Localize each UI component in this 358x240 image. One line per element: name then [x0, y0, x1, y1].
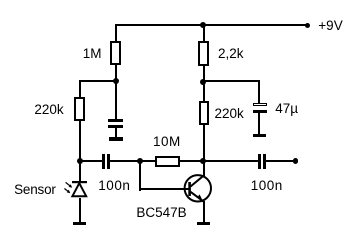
wire: 220k left bottom lead: [79, 121, 81, 161]
collector diagonal: [191, 175, 205, 186]
resistor R5 220k right: [199, 101, 209, 125]
ground bar under C1: [109, 137, 123, 141]
wire: C1 to ground: [115, 128, 117, 138]
wire: 220k right top lead: [203, 82, 205, 102]
ground bar under sensor: [73, 222, 86, 225]
transistor Q1 BC547B: [180, 170, 216, 206]
capacitor C3 100n right plate: [263, 154, 266, 169]
resistor R4 2,2k: [198, 41, 209, 66]
circle: [185, 175, 211, 201]
wire: node A to left branch: [79, 80, 117, 82]
label 220k left: [34, 103, 63, 117]
node: base node dot: [137, 158, 143, 164]
wire: 2,2k top lead: [203, 25, 205, 41]
wire: collector lead: [203, 162, 205, 176]
label 47u: [275, 102, 298, 116]
label 100n left: [98, 179, 130, 193]
label 100n right: [251, 179, 283, 193]
node: rail junction dot: [200, 22, 206, 28]
triangle: [73, 183, 87, 196]
node B collector node dot: [200, 158, 206, 164]
wire: +9V top rail: [115, 24, 308, 26]
resistor R2 220k left: [74, 97, 85, 121]
wire: 2,2k bottom lead: [203, 66, 205, 82]
node: sensor node dot: [77, 158, 83, 164]
capacitor C4 negative plate (solid): [253, 110, 268, 113]
wire: output cap to terminal: [266, 160, 296, 162]
node A junction dot: [113, 78, 119, 84]
wire: 47u to ground: [258, 113, 260, 134]
label +9V: [318, 19, 342, 33]
light arrow 2: [65, 189, 69, 192]
capacitor C2 100n left plate: [102, 154, 105, 169]
light arrow 1: [66, 182, 71, 186]
label 1M: [83, 47, 102, 61]
cathode bar: [72, 181, 87, 183]
wire: sensor top lead: [79, 161, 81, 181]
emitter diagonal: [191, 192, 204, 202]
node: 2,2k/220k junction dot: [200, 79, 206, 85]
capacitor C3 100n left plate: [258, 154, 261, 169]
wire: C2 to 10M: [110, 160, 155, 162]
wire: node A down to capacitor: [115, 81, 117, 120]
wire: 1M top lead: [115, 25, 117, 41]
wire: 10M to output cap: [180, 160, 258, 162]
resistor R3 10M: [155, 156, 180, 167]
capacitor C2 100n right plate: [107, 154, 110, 169]
wire: sensor node to C2: [79, 160, 102, 162]
wire: 220k left top lead: [79, 81, 81, 97]
capacitor C1 (vertical) top plate: [108, 119, 123, 122]
base bar: [188, 182, 191, 196]
label 220k right: [215, 107, 244, 121]
capacitor C1 bottom plate: [108, 125, 123, 128]
wire: junction to 47u branch: [204, 80, 261, 82]
ground bar under 47u: [253, 134, 266, 137]
wire: base horizontal to transistor: [139, 188, 189, 190]
ground bar under emitter: [197, 222, 210, 225]
wire: 220k right bottom lead: [203, 125, 205, 160]
resistor R1 1M: [110, 41, 121, 65]
wire: sensor bottom lead: [79, 198, 81, 222]
label 10M: [153, 135, 181, 149]
emitter arrowhead: [197, 194, 202, 199]
sensor photodiode D1: [58, 176, 92, 202]
capacitor C4 47u positive plate (hollow): [253, 103, 268, 107]
label BC547B: [136, 206, 186, 220]
wire: 1M bottom lead: [115, 65, 117, 81]
wire: emitter lead: [203, 201, 205, 222]
wire: 47u top lead: [258, 81, 260, 103]
node: +9V terminal dot: [305, 23, 311, 29]
label Sensor: [14, 183, 56, 197]
node: output terminal dot: [293, 158, 299, 164]
wire: base node down: [139, 162, 141, 191]
label 2,2k: [218, 47, 244, 61]
